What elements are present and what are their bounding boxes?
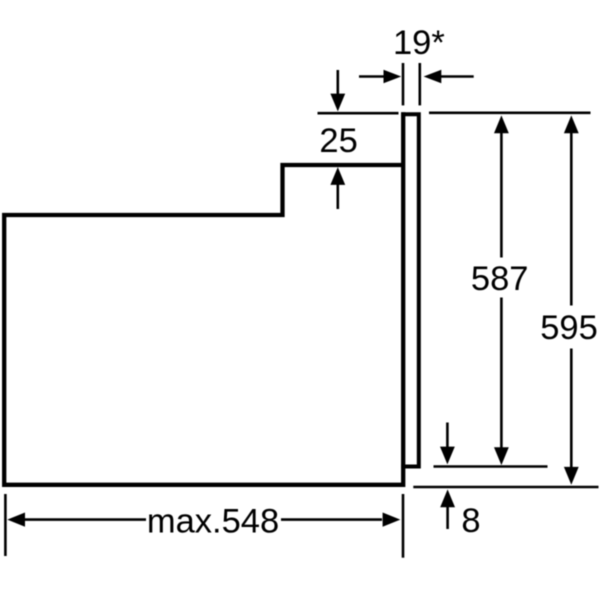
dim 8 bottom reference line	[413, 486, 598, 489]
svg-text:595: 595	[540, 309, 598, 347]
dim 8 down arrow	[440, 423, 455, 465]
oven door front panel	[401, 114, 419, 466]
top reference line left segment	[318, 112, 399, 115]
oven body outline	[4, 112, 405, 485]
svg-text:587: 587	[471, 260, 529, 298]
dim 8 top reference line	[434, 465, 548, 468]
dim 595 line with arrows	[564, 115, 579, 484]
dim max.548 left extension line	[4, 494, 7, 556]
svg-text:19*: 19*	[393, 24, 445, 62]
dim max.548 left arrow	[7, 513, 146, 527]
svg-text:max.548: max.548	[147, 502, 279, 540]
top reference line right segment	[429, 112, 591, 115]
dim 19* left extension tick	[402, 63, 405, 105]
svg-text:8: 8	[461, 502, 480, 540]
dim max.548 right arrow	[281, 513, 400, 527]
dim 25 up arrow	[330, 167, 345, 209]
dim 587 line with arrows	[494, 115, 509, 465]
svg-text:25: 25	[319, 122, 357, 160]
dim 19* left arrow	[359, 70, 401, 83]
dim max.548 right extension line	[402, 494, 405, 558]
dim 25 down arrow	[330, 70, 345, 111]
dim 19* right arrow	[424, 70, 474, 83]
dim 8 up arrow	[440, 489, 455, 529]
dim 19* right extension tick	[418, 63, 421, 105]
